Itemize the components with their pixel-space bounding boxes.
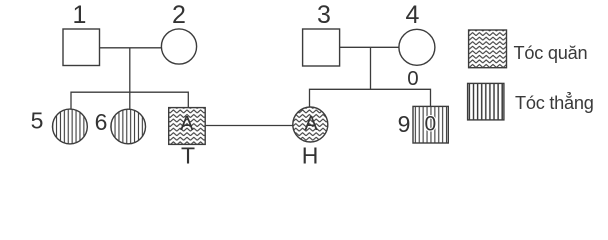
svg-text:9: 9 [398,111,411,137]
wire descent couple 1-2 to child 6 [129,48,131,110]
circle individual 2 [161,29,196,64]
circle individual 4 [399,29,435,65]
svg-text:5: 5 [31,108,44,134]
svg-text:Tóc thẳng: Tóc thẳng [515,92,594,113]
svg-text:3: 3 [317,1,331,29]
svg-text:0: 0 [407,67,418,90]
wire couple 3-4 [340,46,399,48]
svg-text:A: A [304,113,318,135]
square individual 9 striped [413,106,448,143]
svg-text:0: 0 [424,113,436,136]
wire sibling bar left family [71,92,188,109]
square individual 1 [63,29,100,66]
svg-text:H: H [302,142,319,168]
wire sibling bar right family [310,89,431,107]
svg-text:6: 6 [95,109,108,135]
svg-text:4: 4 [406,1,420,29]
svg-text:1: 1 [73,1,87,29]
square individual 7 wavy (T) [169,108,206,145]
wire couple 1-2 [100,47,162,49]
circle individual 6 striped [111,109,146,144]
svg-text:T: T [181,142,195,168]
svg-text:Tóc quăn: Tóc quăn [514,43,588,63]
circle individual 8 wavy (H) [293,107,328,142]
svg-text:2: 2 [172,1,186,29]
svg-text:A: A [180,113,194,135]
circle individual 5 striped [53,109,88,144]
legend striped square [468,83,504,120]
square individual 3 [303,29,340,66]
wire couple square-T and circle-H [205,125,293,127]
wire descent couple 3-4 [370,47,372,89]
legend wavy square [469,30,507,68]
